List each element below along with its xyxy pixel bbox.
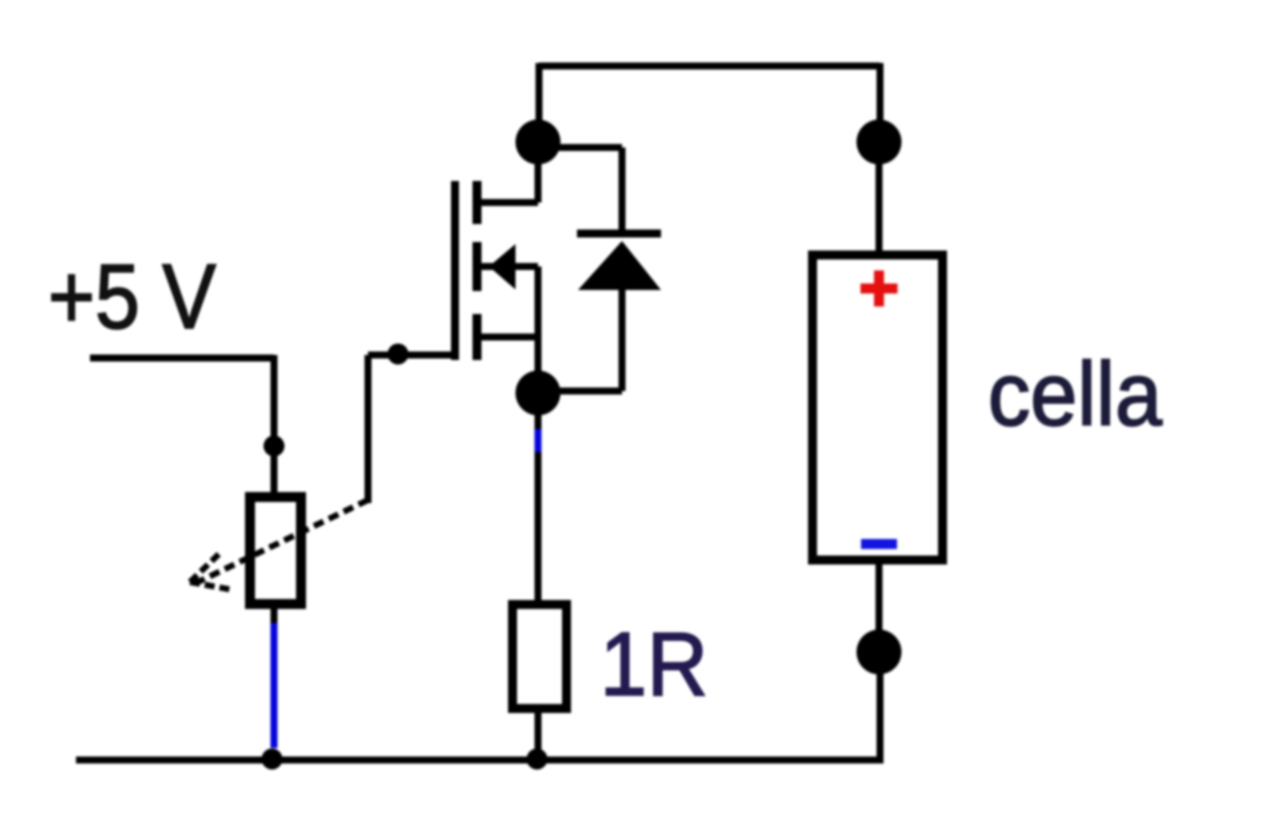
battery plus mark — [861, 271, 898, 307]
junction dot battery plus node — [857, 120, 902, 165]
transistor Q1 body lead with arrow — [481, 267, 538, 394]
wire battery minus stub — [876, 560, 883, 652]
transistor Q1 source lead — [481, 334, 538, 341]
junction dot source node — [516, 371, 561, 416]
junction dot battery minus node — [857, 630, 902, 675]
battery minus mark — [861, 539, 897, 549]
wire bottom-right vertical to battery — [877, 652, 884, 764]
junction dot drain node — [516, 120, 561, 165]
wire +5V horizontal — [90, 355, 274, 362]
wire pot bottom stub — [271, 604, 278, 623]
resistor 1R body — [513, 605, 567, 709]
svg-text:1R: 1R — [600, 615, 708, 715]
diode D1 cathode bar — [577, 230, 661, 238]
transistor Q1 channel segment top — [473, 181, 482, 224]
junction small dot on pot top wire — [264, 436, 285, 457]
wire top-left vertical — [536, 63, 543, 142]
transistor Q1 body arrow — [489, 244, 516, 290]
wire diode bottom connector — [545, 286, 622, 391]
transistor Q1 drain lead — [477, 141, 538, 203]
junction small dot rail below resistor — [527, 749, 548, 770]
battery B1 body — [813, 255, 943, 560]
wire +5V vertical down to potentiometer — [271, 355, 278, 497]
wire bottom rail — [76, 757, 880, 764]
wire blue segment below source node — [535, 429, 542, 452]
wire resistor bottom to rail — [535, 708, 542, 760]
wire gate vertical from wiper — [365, 355, 372, 503]
potentiometer wiper arrow barb lower — [190, 582, 233, 590]
wire blue segment below potentiometer — [271, 623, 278, 748]
potentiometer wiper dashed diagonal — [194, 500, 368, 584]
wire gate horizontal to MOSFET — [368, 352, 452, 359]
wire top-right vertical — [877, 63, 884, 142]
wire diode top connector — [545, 148, 622, 235]
transistor Q1 channel segment middle — [473, 242, 482, 291]
junction small dot on gate wire — [388, 344, 409, 365]
wire source node down to resistor — [535, 400, 542, 605]
svg-text:cella: cella — [988, 345, 1163, 445]
svg-text:+5 V: +5 V — [48, 246, 216, 348]
potentiometer wiper arrow barb upper — [190, 553, 220, 582]
junction small dot rail below pot — [262, 749, 283, 770]
diode D1 triangle — [578, 241, 661, 290]
transistor Q1 gate bar — [451, 181, 459, 360]
transistor Q1 channel segment bottom — [473, 314, 482, 360]
potentiometer P1 body — [250, 497, 301, 604]
wire top rail — [539, 63, 880, 70]
wire battery plus stub — [876, 142, 883, 255]
